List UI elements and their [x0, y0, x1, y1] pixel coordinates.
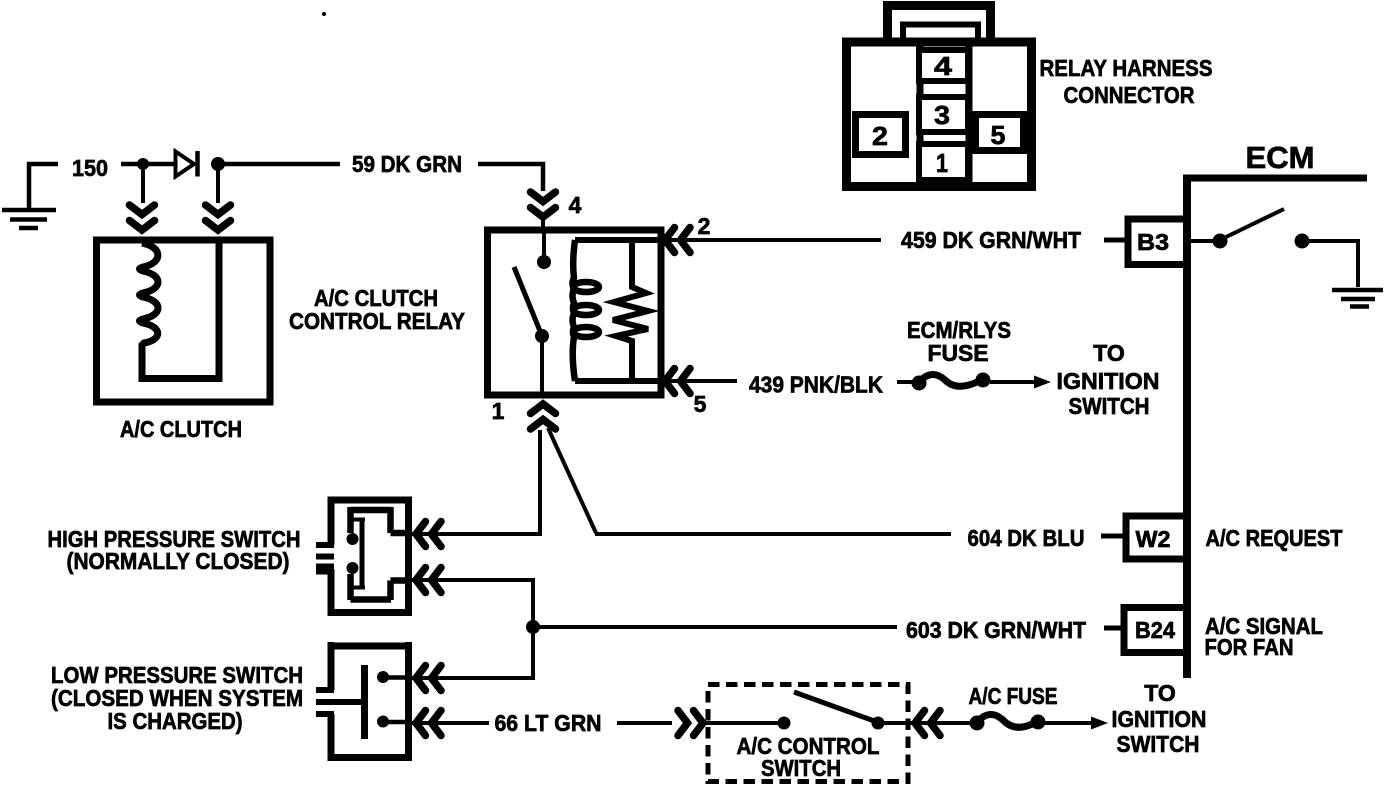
LP contact dots and stubs — [377, 671, 389, 683]
svg-text:B24: B24 — [1135, 617, 1175, 643]
A/C clutch box — [97, 240, 271, 402]
svg-text:IGNITION: IGNITION — [1057, 368, 1160, 394]
svg-text:IGNITION: IGNITION — [1112, 706, 1207, 732]
relay harness connector body — [847, 42, 1032, 187]
svg-text:603 DK GRN/WHT: 603 DK GRN/WHT — [906, 617, 1086, 643]
connector pin 4 — [919, 50, 968, 81]
relay resistor (parallel) — [613, 240, 648, 381]
wire fuse to arrow — [1045, 721, 1092, 725]
svg-text:4: 4 — [569, 192, 582, 218]
wire to ground G2 — [1302, 241, 1358, 287]
svg-text:B3: B3 — [1137, 229, 1169, 255]
svg-text:150: 150 — [72, 155, 108, 181]
wire 66 LT GRN (left) — [412, 721, 489, 725]
svg-text:FOR FAN: FOR FAN — [1205, 634, 1294, 660]
relay pin 5 chevron — [665, 369, 690, 394]
ECM pin W2 box — [1126, 516, 1187, 559]
wire 603 DK GRN/WHT — [533, 625, 897, 629]
wire drop to clutch right — [216, 170, 220, 203]
wire from 150 to node A — [121, 162, 140, 167]
svg-text:459 DK GRN/WHT: 459 DK GRN/WHT — [901, 227, 1081, 253]
wire stub into W2 — [1101, 534, 1126, 539]
relay switch fixed contact — [542, 233, 546, 256]
relay harness connector tab inner — [903, 25, 978, 43]
diode D1 — [176, 151, 198, 177]
svg-text:ECM: ECM — [1246, 140, 1315, 175]
relay coil top rail — [575, 237, 658, 243]
high pressure switch body — [328, 497, 413, 616]
ECM internal switch wire — [1191, 239, 1214, 243]
relay switch lower lead to pin 1 — [540, 336, 544, 392]
wire node A to diode — [143, 162, 176, 167]
svg-text:1: 1 — [936, 148, 948, 178]
wire to A/C fuse — [911, 721, 972, 725]
wire fuse to arrow — [990, 380, 1035, 384]
LP chevron lower — [416, 711, 441, 736]
arrow to ignition switch (lower) — [1091, 717, 1108, 730]
relay coil bottom rail — [575, 378, 658, 384]
svg-text:604 DK BLU: 604 DK BLU — [968, 525, 1085, 551]
relay switch blade — [514, 267, 542, 336]
svg-text:(NORMALLY CLOSED): (NORMALLY CLOSED) — [67, 548, 290, 574]
svg-text:FUSE: FUSE — [928, 340, 989, 366]
wire drop to clutch left — [141, 170, 145, 203]
wire 59 DK GRN (left segment) — [218, 162, 340, 167]
svg-text:A/C CLUTCH: A/C CLUTCH — [120, 416, 242, 442]
svg-text:439 PNK/BLK: 439 PNK/BLK — [749, 372, 883, 398]
ECM switch contact dot left — [1213, 234, 1228, 249]
fuse F2 A/C FUSE — [970, 714, 1046, 730]
junction dot 603 — [526, 620, 540, 634]
HP movable contact bar — [360, 519, 365, 588]
svg-text:4: 4 — [934, 51, 953, 81]
wire 604 DK BLU — [595, 532, 951, 536]
ECM pin B3 box — [1128, 219, 1187, 265]
HP inner contact frame — [351, 507, 407, 600]
connector pin 5 — [976, 115, 1024, 151]
control switch contact dot right — [872, 717, 885, 730]
relay A/C clutch control relay box — [488, 230, 662, 395]
svg-text:SWITCH: SWITCH — [761, 755, 841, 781]
wire pin4 chevron to relay box — [541, 216, 545, 227]
connector chevrons into A/C clutch — [130, 205, 155, 230]
svg-text:5: 5 — [991, 120, 1006, 150]
control switch blade — [794, 692, 877, 722]
wire 59 DK GRN (right segment) to relay pin 4 — [478, 164, 543, 191]
ground G1 top-left — [2, 164, 58, 228]
LP movable contact bar — [361, 665, 368, 739]
svg-text:SWITCH: SWITCH — [1117, 731, 1200, 757]
relay coil winding — [573, 240, 600, 381]
svg-text:CONNECTOR: CONNECTOR — [1064, 82, 1195, 108]
svg-text:3: 3 — [934, 100, 950, 130]
ground G2 — [1332, 290, 1383, 307]
svg-text:1: 1 — [492, 398, 505, 424]
fuse F1 ECM/RLYS — [912, 373, 991, 391]
stray dot artifact — [322, 12, 326, 16]
wire 459 DK GRN/WHT — [661, 238, 881, 242]
ECM spine — [1183, 175, 1191, 679]
wire HP lower to junction, down — [412, 580, 533, 678]
HP chevron lower — [416, 568, 441, 593]
wire pin1 down and left to high pressure switch — [412, 430, 540, 534]
ECM switch blade — [1226, 209, 1284, 237]
connector pin 2 — [856, 115, 906, 155]
HP pressure port plates — [316, 545, 334, 572]
ECM top bar — [1187, 175, 1367, 182]
svg-text:A/C FUSE: A/C FUSE — [969, 683, 1058, 709]
svg-text:A/C REQUEST: A/C REQUEST — [1206, 525, 1343, 551]
out chevron to control switch — [678, 711, 703, 736]
wire into control switch — [702, 721, 783, 725]
wire stub into B24 — [1104, 626, 1124, 631]
svg-text:RELAY HARNESS: RELAY HARNESS — [1040, 55, 1213, 81]
svg-text:W2: W2 — [1136, 526, 1171, 552]
svg-text:TO: TO — [1144, 680, 1176, 706]
chevron at control switch output — [915, 711, 940, 736]
connector pin 3 — [919, 97, 968, 132]
HP contact dots — [347, 533, 359, 545]
svg-text:IS CHARGED): IS CHARGED) — [108, 708, 243, 734]
relay pin 1 chevron — [531, 404, 556, 429]
relay pin 2 chevron — [665, 228, 690, 253]
node A junction dot — [137, 158, 149, 170]
svg-text:TO: TO — [1093, 340, 1125, 366]
A/C clutch coil L1 — [140, 243, 220, 379]
connector channel verticals — [920, 46, 969, 182]
control switch contact dot left — [778, 717, 791, 730]
svg-text:2: 2 — [872, 121, 888, 151]
node B junction dot — [211, 157, 225, 171]
wire to right edge — [878, 721, 911, 725]
ECM pin B24 box — [1124, 608, 1187, 653]
HP chevron upper — [416, 522, 441, 547]
svg-text:59 DK GRN: 59 DK GRN — [352, 151, 462, 177]
LP pressure port plates — [316, 690, 365, 714]
svg-text:CONTROL RELAY: CONTROL RELAY — [289, 308, 465, 334]
low pressure switch body — [328, 642, 413, 761]
wire pin1 diagonal to 604 node — [548, 428, 596, 533]
arrow to ignition switch — [1034, 376, 1051, 389]
connector pin 1 — [919, 144, 968, 180]
A/C control switch dashed box — [708, 685, 908, 782]
ECM switch contact dot right — [1295, 234, 1310, 249]
wire 66 LT GRN (middle) — [617, 721, 672, 725]
svg-text:5: 5 — [694, 391, 707, 417]
relay pin 4 chevron — [531, 192, 556, 217]
wire stub into B3 — [1104, 238, 1128, 243]
svg-text:SWITCH: SWITCH — [1069, 393, 1150, 419]
wire to fuse — [897, 380, 920, 384]
relay harness connector tab outer — [888, 6, 991, 43]
LP chevron upper — [416, 666, 441, 691]
wire 439 PNK/BLK (left) — [661, 379, 737, 383]
svg-text:2: 2 — [698, 213, 711, 239]
svg-text:66 LT GRN: 66 LT GRN — [495, 710, 602, 736]
